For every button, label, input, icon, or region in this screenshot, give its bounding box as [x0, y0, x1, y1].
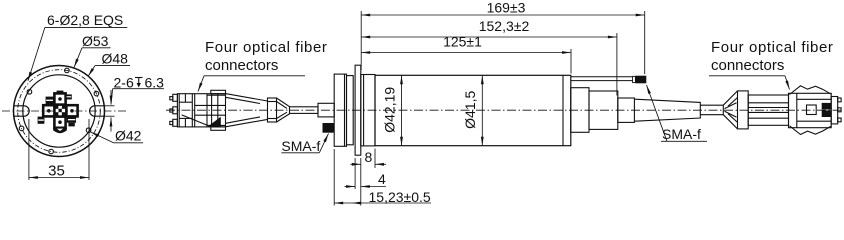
svg-text:35: 35 [48, 163, 65, 180]
svg-text:Ø48: Ø48 [102, 51, 129, 67]
svg-text:2-6: 2-6 [114, 75, 134, 91]
svg-text:4: 4 [378, 171, 386, 187]
svg-text:152,3±2: 152,3±2 [479, 18, 530, 34]
svg-text:6-Ø2,8 EQS: 6-Ø2,8 EQS [47, 12, 123, 28]
svg-text:Four optical fiber: Four optical fiber [205, 39, 328, 56]
svg-text:SMA-f: SMA-f [281, 138, 320, 154]
svg-text:Ø42: Ø42 [115, 128, 142, 144]
svg-text:connectors: connectors [205, 57, 278, 74]
svg-text:SMA-f: SMA-f [662, 126, 701, 142]
svg-text:6.3: 6.3 [145, 75, 165, 91]
svg-text:Ø42,19: Ø42,19 [382, 87, 398, 133]
svg-text:8: 8 [365, 149, 373, 165]
svg-text:connectors: connectors [711, 57, 784, 74]
svg-text:Ø53: Ø53 [82, 33, 109, 49]
svg-text:Ø41,5: Ø41,5 [462, 91, 478, 129]
svg-text:Four optical fiber: Four optical fiber [711, 39, 834, 56]
svg-text:15,23±0.5: 15,23±0.5 [369, 189, 431, 205]
svg-text:169±3: 169±3 [487, 0, 526, 16]
svg-text:125±1: 125±1 [443, 34, 482, 50]
